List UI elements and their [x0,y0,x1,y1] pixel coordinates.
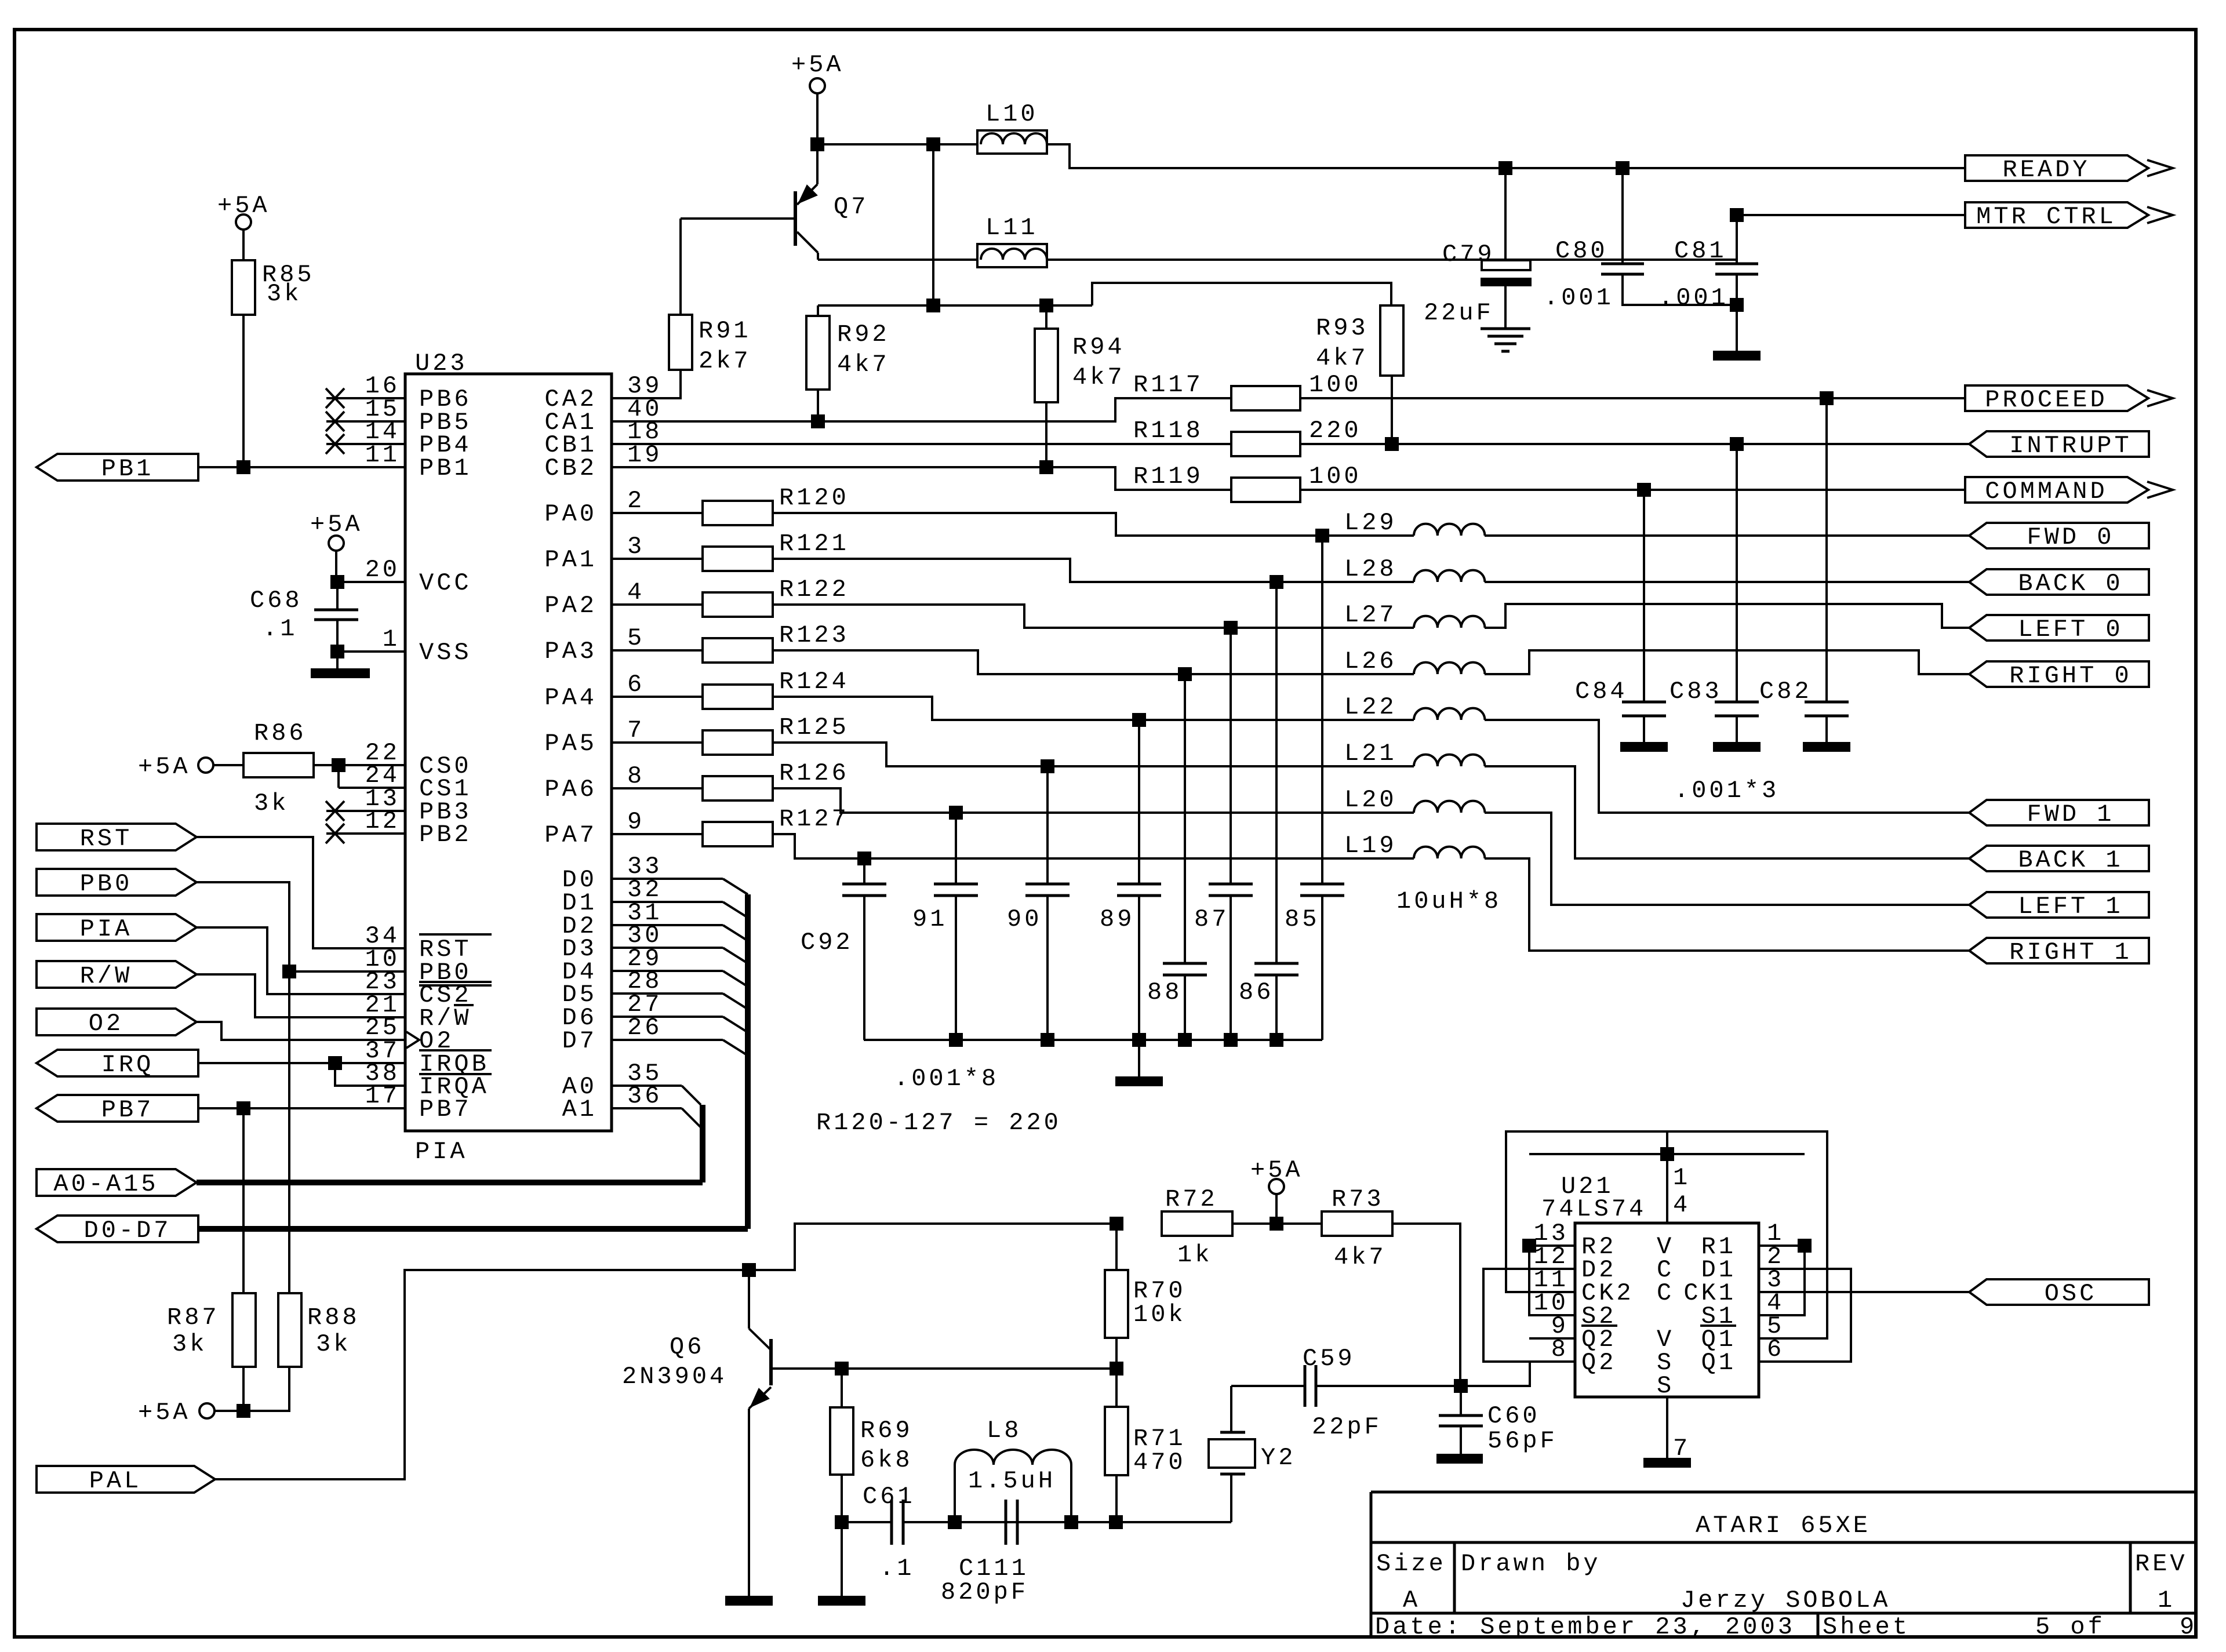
svg-text:PB1: PB1 [101,455,154,483]
inductor L8 1.5uH [954,1465,956,1522]
node C90 top junction [1041,759,1054,773]
wire R122 to L row [773,605,1414,628]
inductor L20 10uH [1414,801,1485,813]
capacitor C85 .001 [1321,536,1323,884]
svg-text:R87: R87 [167,1304,220,1331]
wire L11 to MTR CTRL line [1047,215,1965,260]
node R92/CA1 junction [811,414,825,428]
wire L27 to LEFT 0 [1485,604,1969,628]
wire +5 rail to pullups [932,144,934,305]
svg-text:C84: C84 [1575,678,1628,705]
resistor R72 1k [1162,1211,1232,1236]
node C88 top junction [1178,667,1192,681]
node R87/R88 +5A junction [237,1404,250,1418]
svg-text:D7: D7 [562,1027,597,1055]
node PROCEED/C82 junction [1820,391,1834,405]
flag FWD 1 [1969,800,2149,825]
U21 R2/S2 tie [1529,1246,1575,1315]
svg-text:MTR CTRL: MTR CTRL [1976,203,2116,231]
svg-text:.1: .1 [879,1555,914,1582]
flag A0-A15 [37,1169,197,1196]
svg-text:9: 9 [2180,1613,2197,1641]
svg-text:PB7: PB7 [419,1096,472,1123]
wire R86 to CS0 [314,764,405,766]
svg-text:6: 6 [627,671,645,698]
resistor R69 6k8 [841,1369,843,1407]
svg-text:PB0: PB0 [80,870,133,898]
svg-text:87: 87 [1194,905,1229,933]
svg-text:PB1: PB1 [419,454,472,482]
svg-text:C80: C80 [1555,237,1608,265]
svg-text:C81: C81 [1674,237,1727,265]
svg-text:3k: 3k [316,1330,351,1358]
wire D6 pin stub [612,1016,723,1018]
NC pin stub with X [326,443,405,445]
NC pin stub with X [326,420,405,423]
svg-text:PIA: PIA [80,915,133,943]
svg-text:VCC: VCC [419,569,472,597]
node VCC junction [330,575,344,589]
wire CS0 junction to CS1 [337,765,340,788]
wire R73 to C59/C60 node [1392,1224,1460,1386]
svg-text:4: 4 [627,578,645,606]
svg-text:R86: R86 [254,719,307,747]
wire C59 node to U21 pin 8 Q2 [1461,1362,1575,1386]
resistor R118 220 [1231,432,1300,456]
svg-text:Drawn by: Drawn by [1461,1550,1601,1578]
capacitor CC92 .001 [863,858,865,884]
NC pin stub with X [326,397,405,399]
node COMMAND/C84 junction [1637,483,1651,497]
wire L22 to FWD 1 [1485,720,1969,813]
svg-text:Q2: Q2 [1581,1349,1616,1377]
svg-text:R72: R72 [1165,1185,1218,1213]
svg-text:BACK 1: BACK 1 [2018,846,2123,874]
resistor R92 4k7 [817,305,819,316]
svg-text:4k7: 4k7 [1316,344,1369,372]
capacitor C90 .001 [1046,766,1049,884]
flag RST [37,824,197,850]
resistor R94 4k7 [1045,305,1047,329]
svg-text:R92: R92 [837,321,890,348]
svg-text:7: 7 [627,716,645,744]
svg-text:S: S [1657,1372,1674,1400]
node C80/C81 junction [1730,298,1744,312]
resistor R70 10k [1115,1224,1118,1270]
svg-text:820pF: 820pF [941,1578,1028,1606]
svg-text:Sheet: Sheet [1823,1613,1910,1641]
svg-text:D0-D7: D0-D7 [83,1217,171,1245]
inductor L10 [977,130,1047,154]
transistor Q6 NPN 2N3904 [748,1270,750,1329]
node IRQ junction [328,1056,342,1070]
node R70/R71 junction [1110,1362,1123,1376]
svg-text:BACK 0: BACK 0 [2018,570,2123,598]
svg-text:C59: C59 [1303,1345,1355,1373]
svg-text:+5A: +5A [138,753,191,781]
svg-text:R125: R125 [779,714,849,741]
svg-text:4k7: 4k7 [1072,363,1125,391]
node C61 left junction [835,1515,849,1529]
svg-text:5 of: 5 of [2035,1613,2105,1641]
wires R87 R88 to +5A [242,1367,245,1411]
resistor R71 470 [1115,1369,1118,1407]
flag R/W [37,961,197,988]
ground below VSS [336,652,339,668]
node INTRUPT/C83 junction [1730,437,1744,451]
wire R85 to PB1 node [242,315,245,467]
resistor R85 3k [232,260,255,315]
wire VCC pin 20 [337,581,405,583]
svg-text:2N3904: 2N3904 [622,1363,727,1391]
inductor L19 10uH [1414,847,1485,858]
ground Q6 [725,1596,773,1606]
svg-text:PA7: PA7 [544,821,597,849]
svg-text:R91: R91 [699,317,751,345]
resistor R123 220 [612,649,703,652]
node ground bus junction [1270,1033,1283,1047]
node R69 top junction [835,1362,849,1376]
U21 D1/Q1 tie [1759,1269,1851,1362]
svg-text:C68: C68 [250,587,303,614]
svg-text:RIGHT 1: RIGHT 1 [2009,938,2132,966]
ground symbol for cap bus [1138,1040,1140,1076]
svg-text:4k7: 4k7 [837,351,890,379]
wire IRQ flag to U23 pin 37 IRQB [198,1062,405,1064]
svg-text:PA6: PA6 [544,776,597,803]
svg-text:R117: R117 [1133,371,1203,399]
svg-text:88: 88 [1147,978,1182,1006]
wire PIA flag to U23 pin 23 CS2 [197,927,405,994]
capacitor C68 .1 [336,582,339,610]
wire R124 to L row [773,697,1414,720]
wire +5A to R85 [242,230,245,260]
flag D0-D7 [37,1216,198,1242]
svg-text:INTRUPT: INTRUPT [2009,432,2132,460]
bus A0-A15 [197,1180,703,1185]
svg-text:PAL: PAL [89,1467,142,1495]
wire A1 pin 36 [612,1107,682,1109]
node C89 top junction [1132,713,1146,727]
wire R/W flag to U23 pin 21 [197,974,405,1017]
flag RIGHT 1 [1969,938,2149,963]
resistor R73 4k7 [1322,1211,1392,1236]
node ground bus junction [1041,1033,1054,1047]
node L10 branch junction [926,137,940,151]
svg-text:4k7: 4k7 [1334,1243,1387,1271]
svg-text:Q7: Q7 [834,193,868,221]
svg-text:ATARI 65XE: ATARI 65XE [1696,1512,1871,1540]
wire R92 to CA1 [817,390,819,421]
node PB1/R85 junction [237,460,250,474]
wire IRQ to pin 38 IRQA [335,1063,405,1086]
flag PB7 [37,1095,198,1122]
svg-text:R122: R122 [779,576,849,603]
U21 Q overlines [1581,1324,1617,1327]
flag PROCEED [1965,385,2148,411]
svg-text:91: 91 [912,905,947,933]
svg-text:1k: 1k [1177,1241,1212,1269]
resistor R93 4k7 [1380,305,1403,376]
resistor R122 220 [612,603,703,606]
U21 preset/clear rail [1529,1153,1805,1155]
wire R121 to L row [773,559,1414,582]
svg-text:L20: L20 [1344,786,1397,814]
svg-text:20: 20 [365,556,400,584]
svg-text:R94: R94 [1072,333,1125,361]
resistor R120 220 [612,512,703,514]
svg-text:89: 89 [1100,905,1134,933]
svg-text:A1: A1 [562,1096,597,1123]
svg-text:C61: C61 [863,1483,915,1511]
node rail junction R94 [1039,299,1053,312]
wire R123 to L row [773,650,1414,674]
svg-text:.001*8: .001*8 [894,1065,999,1093]
svg-text:READY: READY [2002,156,2090,184]
flag MTR CTRL [1965,202,2148,228]
resistor R121 220 [612,558,703,560]
inductor L29 10uH [1414,524,1485,536]
svg-text:R120: R120 [779,484,849,512]
svg-text:Q1: Q1 [1701,1349,1736,1377]
flag PB0 [37,869,197,896]
wire R127 to L row [773,834,1414,858]
svg-text:R73: R73 [1332,1185,1384,1213]
resistor R87 3k [242,1108,245,1293]
node +5A junction [1270,1217,1283,1231]
capacitor C86 .001 [1275,582,1278,963]
U21 pin 9 stub [1529,1337,1575,1340]
svg-text:56pF: 56pF [1487,1427,1558,1455]
node C86 top junction [1270,575,1283,589]
node VSS junction [330,645,344,658]
svg-text:PB2: PB2 [419,821,472,849]
wire L19 to RIGHT 1 [1485,858,1969,951]
svg-text:100: 100 [1309,463,1362,490]
flag BACK 0 [1969,569,2149,595]
svg-text:PA5: PA5 [544,730,597,758]
IC U21 74LS74 body [1575,1223,1759,1397]
svg-text:C79: C79 [1442,241,1495,268]
svg-text:L11: L11 [985,214,1038,242]
svg-text:R121: R121 [779,530,849,558]
flag FWD 0 [1969,523,2149,548]
inductor L22 10uH [1414,708,1485,720]
wire L29 to FWD 0 [1485,534,1969,537]
svg-text:+5A: +5A [791,51,844,79]
resistor R119 100 [1231,478,1300,502]
inductor L26 10uH [1414,663,1485,674]
svg-text:26: 26 [627,1014,662,1042]
wire L21 to BACK 1 [1485,766,1969,858]
svg-text:.1: .1 [263,615,297,643]
svg-text:74LS74: 74LS74 [1541,1195,1646,1223]
node R1 junction [1798,1239,1812,1253]
NC pin stub with X [326,810,405,812]
wire CB2 pin 19 to R119 [612,467,1231,490]
wire L20 to LEFT 1 [1485,813,1969,905]
wire A0 pin 35 [612,1085,682,1087]
svg-text:R123: R123 [779,621,849,649]
svg-text:5: 5 [627,624,645,652]
flag LEFT 1 [1969,892,2149,918]
svg-text:10k: 10k [1133,1301,1186,1329]
svg-text:3k: 3k [172,1330,207,1358]
resistor R88 3k [288,971,290,1293]
svg-text:RIGHT 0: RIGHT 0 [2009,662,2132,690]
flag OSC [1969,1279,2149,1305]
capacitor C88 .001 [1184,674,1186,963]
flag RIGHT 0 [1969,661,2149,687]
svg-text:1: 1 [1673,1164,1690,1192]
wire D4 pin stub [612,970,723,972]
svg-text:+5A: +5A [138,1399,191,1427]
wire R120 to L row [773,513,1414,536]
wire Q6 emitter to ground [748,1409,750,1596]
inductor L27 10uH [1414,616,1485,628]
flag BACK 1 [1969,846,2149,871]
svg-text:PB7: PB7 [101,1096,154,1124]
capacitor C81 .001 [1736,215,1738,264]
cap ground bus line [864,1039,1322,1041]
svg-text:PA3: PA3 [544,638,597,665]
svg-text:PA2: PA2 [544,592,597,620]
wire R119 to COMMAND [1300,489,1965,491]
inductor L28 10uH [1414,570,1485,582]
svg-text:2: 2 [627,487,645,515]
U23 O2 clock chevron [406,1032,419,1048]
svg-text:470: 470 [1133,1449,1186,1476]
svg-text:L10: L10 [985,100,1038,128]
node R71 bottom junction [1109,1515,1123,1529]
svg-text:L29: L29 [1344,509,1397,537]
wire VSS pin 1 [337,650,405,653]
svg-text:11: 11 [365,441,400,469]
wire +5A to rail [816,93,819,144]
svg-text:.001*3: .001*3 [1674,777,1779,805]
bus D0-D7 [198,1226,748,1232]
svg-text:.001: .001 [1544,284,1614,312]
wire L26 to RIGHT 0 [1485,650,1969,674]
wire D7 pin stub [612,1039,723,1041]
svg-text:10uH*8: 10uH*8 [1396,887,1501,915]
svg-text:LEFT 0: LEFT 0 [2018,616,2123,643]
svg-text:19: 19 [627,441,662,469]
svg-text:LEFT 1: LEFT 1 [2018,893,2123,920]
svg-text:.001: .001 [1658,284,1729,312]
wire PB0 flag to U23 pin 10 [197,882,405,971]
node rail junction L10 [926,299,940,312]
node R93/INTRUPT junction [1385,437,1399,451]
svg-text:90: 90 [1007,905,1042,933]
wire L10 to READY line [1047,144,1965,168]
node C85 top junction [1315,529,1329,543]
svg-text:PIA: PIA [415,1138,468,1166]
svg-text:OSC: OSC [2045,1280,2097,1308]
svg-text:R/W: R/W [80,962,133,990]
svg-text:PA4: PA4 [544,684,597,712]
svg-text:IRQ: IRQ [101,1051,154,1079]
inductor L21 10uH [1414,755,1485,766]
svg-text:6k8: 6k8 [860,1446,913,1474]
osc tank line [842,1521,892,1523]
wire D1 pin stub [612,901,723,903]
wire L28 to BACK 0 [1485,581,1969,583]
svg-text:8: 8 [627,762,645,790]
U23 label overlines [419,933,492,936]
svg-text:6: 6 [1767,1336,1784,1363]
svg-text:PA1: PA1 [544,546,597,574]
wire R91 to CA2 pin 39 [612,370,681,398]
node R70 top junction [1110,1217,1123,1231]
svg-text:4: 4 [1673,1191,1690,1219]
svg-text:A0-A15: A0-A15 [53,1170,158,1198]
svg-text:3k: 3k [254,789,289,817]
ground below C60 [1436,1454,1483,1464]
node ground bus junction [1224,1033,1238,1047]
wire RST flag to U23 pin 34 [197,837,405,948]
resistor R127 220 [612,833,703,835]
svg-text:2k7: 2k7 [699,347,751,375]
resistor R126 220 [612,787,703,789]
svg-text:R124: R124 [779,668,849,696]
svg-text:220: 220 [1309,417,1362,445]
node Q6 collector junction [742,1263,756,1277]
svg-text:L28: L28 [1344,555,1397,583]
wire D2 pin stub [612,924,723,926]
svg-text:R120-127 = 220: R120-127 = 220 [816,1109,1061,1137]
svg-text:L26: L26 [1344,647,1397,675]
wire Q6 base line [771,1367,1116,1370]
capacitor C82 .001 [1825,398,1828,702]
svg-text:3: 3 [627,533,645,561]
svg-text:PA0: PA0 [544,500,597,528]
capacitor C87 .001 [1230,628,1232,884]
node PB7/R87 junction [237,1101,250,1115]
svg-text:L19: L19 [1344,832,1397,860]
node L8 right junction [1064,1515,1078,1529]
svg-text:1: 1 [2158,1586,2175,1614]
svg-text:PROCEED: PROCEED [1985,386,2107,414]
wire D3 pin stub [612,947,723,949]
svg-text:R119: R119 [1133,463,1203,490]
node ground bus junction [1178,1033,1192,1047]
svg-text:L22: L22 [1344,693,1397,721]
U21 feedback loop Q1bar to CK2 [1506,1131,1827,1338]
node Q7 emitter junction [810,137,824,151]
svg-text:22pF: 22pF [1312,1413,1382,1441]
node R94/CB2 junction [1039,460,1053,474]
resistor R125 220 [612,741,703,744]
svg-text:CB2: CB2 [544,454,597,482]
IC U23 6520 PIA body [405,374,612,1131]
wire O2 flag to U23 pin 25 [197,1022,405,1040]
wire R93 to INTRUPT line [1391,376,1393,444]
svg-text:L27: L27 [1344,601,1397,629]
capacitor C89 .001 [1138,720,1140,884]
flag PAL [37,1466,215,1493]
wire +5A to R86 [213,764,243,766]
flag READY [1965,155,2148,181]
resistor R117 100 [1231,386,1300,410]
flag COMMAND [1965,477,2148,503]
wire CB1 pin 18 to R118 [612,443,1231,445]
svg-text:O2: O2 [89,1010,123,1038]
svg-text:U23: U23 [415,350,468,377]
svg-text:A: A [1403,1586,1420,1614]
resistor R91 2k7 [679,219,682,315]
wire CK1 to OSC flag [1759,1291,1969,1293]
